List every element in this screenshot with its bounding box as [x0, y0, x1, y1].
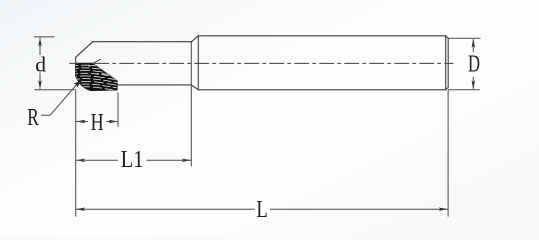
svg-text:D: D — [468, 51, 480, 77]
flute region (hatched cutting head) — [73, 61, 119, 91]
tool outline: step bottom chamfer — [192, 85, 199, 90]
tool outline: shank bottom line — [198, 89, 445, 91]
ext line: D top — [449, 37, 481, 39]
ext line: d bottom — [34, 89, 75, 91]
tool outline: tip chamfer — [76, 42, 93, 58]
svg-text:H: H — [91, 110, 104, 136]
dimension L1 — [76, 147, 192, 173]
tool outline: shank top line — [198, 35, 445, 37]
tool outline: shank end top chamfer — [446, 36, 449, 39]
R leader arrowhead — [73, 80, 82, 87]
centerline (tool axis, dash-dot) — [70, 62, 453, 64]
svg-text:L1: L1 — [121, 147, 144, 173]
tool outline: shank end chamfer-circle vertical — [445, 36, 447, 90]
dimension d — [35, 37, 46, 90]
ext line: d top tick — [34, 36, 55, 38]
svg-text:R: R — [27, 105, 39, 131]
tool outline: shank end face — [447, 38, 449, 87]
tool outline: tip face — [75, 57, 77, 76]
flute gash line — [92, 59, 100, 64]
dimension H — [76, 110, 118, 136]
radius callout R — [27, 80, 81, 131]
tool outline: shank end bottom chamfer — [446, 87, 449, 89]
ext line: tip (left) — [75, 90, 77, 216]
svg-text:d: d — [35, 52, 46, 76]
ext line: shank end (L right) — [447, 90, 449, 217]
svg-text:L: L — [256, 197, 267, 223]
tool outline: shank left edge vertical — [197, 36, 199, 90]
flute helix texture (white streaks) — [73, 61, 119, 91]
ext line: neck end (L1 right) — [190, 42, 192, 167]
R leader line — [41, 83, 79, 116]
dimension D — [468, 38, 480, 90]
tool outline: neck top line — [93, 41, 192, 43]
ext line: flute end (H right) — [117, 92, 119, 127]
dimension L — [76, 197, 448, 223]
tool outline: step top chamfer — [192, 36, 199, 42]
extension lines — [34, 37, 481, 217]
ext line: D bottom — [448, 89, 480, 91]
tool outline: neck bottom line — [117, 84, 191, 86]
